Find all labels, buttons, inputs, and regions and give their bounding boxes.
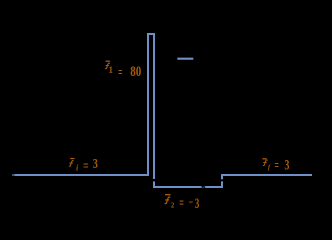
svg-text:3: 3 [284, 158, 289, 174]
svg-text:=: = [179, 195, 184, 209]
node label: f-bar_2 = -3 (lower level) [165, 194, 199, 212]
node: hidden axis gap crossing step edge [221, 179, 223, 181]
overbar of L1 f label [70, 158, 74, 159]
node: gap in lower level line with faint mark [202, 186, 206, 189]
overbar of L2 f label [106, 61, 110, 62]
italic f glyph of f-bar_f [263, 160, 267, 166]
svg-text:−: − [189, 194, 194, 209]
italic f glyph of f-bar_1 [106, 63, 110, 69]
svg-text:3: 3 [195, 196, 200, 209]
svg-text:1: 1 [109, 65, 114, 75]
svg-text:=: = [83, 159, 89, 175]
italic f glyph of f-bar_i [69, 161, 73, 167]
wire: dark start cap of left level line [12, 174, 14, 176]
wire: short dash marker near pulse top [177, 58, 193, 60]
wire: step-function polyline (levels 3, 80, -3, 3) [14, 34, 312, 187]
italic f glyph of f-bar_2 [165, 197, 170, 204]
svg-text:f: f [268, 165, 271, 171]
node label: f-bar_1 = 80 (pulse level) [106, 61, 142, 81]
overbar of L4 f label [262, 158, 266, 159]
node label: f-bar_f = 3 (final level) [262, 158, 289, 174]
node: hidden axis gap crossing right pulse edge [153, 179, 155, 181]
node label: f-bar_i = 3 (initial level) [69, 156, 98, 175]
svg-text:=: = [118, 65, 122, 81]
overbar of L3 f label [165, 194, 170, 195]
svg-text:=: = [275, 158, 279, 174]
svg-text:2: 2 [171, 202, 175, 210]
svg-text:i: i [76, 164, 79, 173]
svg-text:3: 3 [93, 156, 98, 171]
svg-text:80: 80 [130, 64, 141, 80]
